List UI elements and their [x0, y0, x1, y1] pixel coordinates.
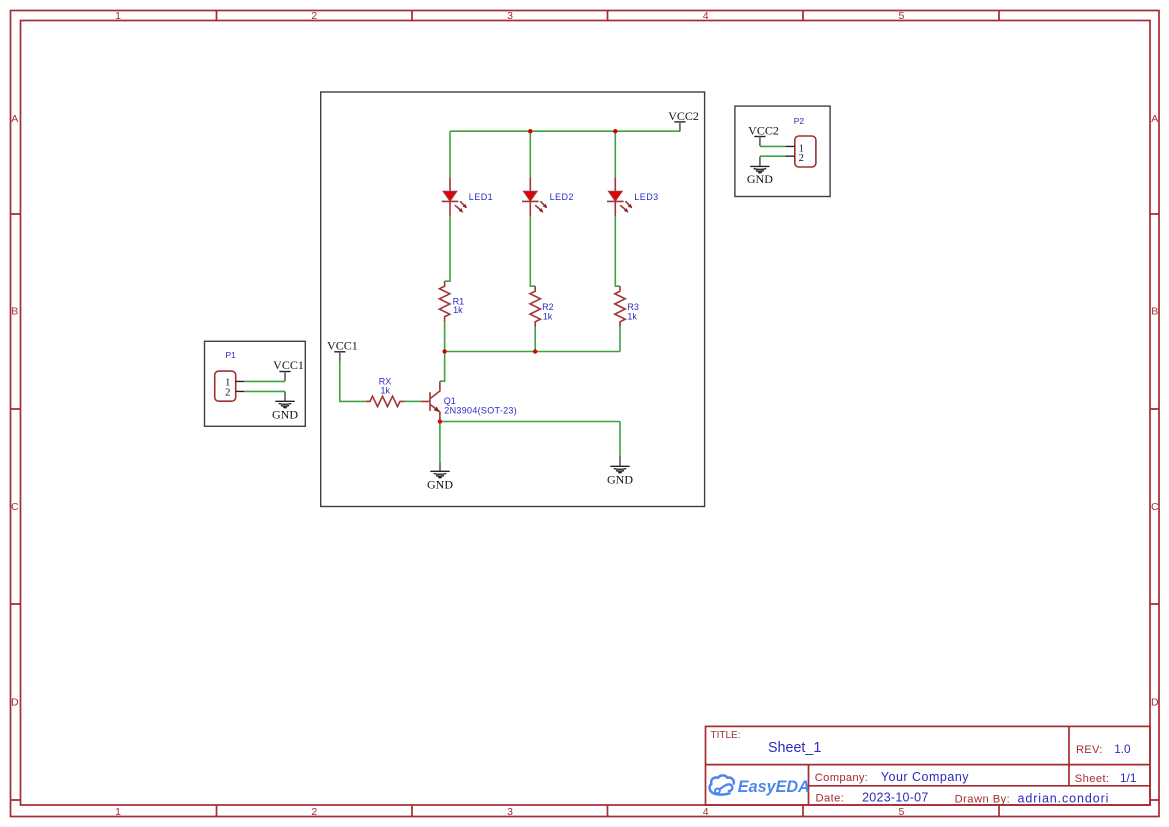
LED LED1: [442, 177, 467, 216]
svg-text:D: D: [11, 697, 19, 709]
svg-text:TITLE:: TITLE:: [711, 730, 741, 741]
svg-text:LED2: LED2: [550, 192, 574, 202]
svg-text:1/1: 1/1: [1120, 771, 1136, 785]
svg-text:1k: 1k: [627, 311, 637, 321]
wire LED3 top: [614, 131, 616, 177]
svg-text:adrian.condori: adrian.condori: [1018, 791, 1110, 805]
svg-text:REV:: REV:: [1076, 744, 1103, 756]
power flag VCC2 (top rail): [668, 109, 699, 132]
wire emitter bus: [445, 351, 620, 353]
svg-text:1: 1: [115, 806, 121, 818]
svg-text:B: B: [11, 306, 18, 318]
wire R3 bottom: [619, 327, 621, 352]
wire P1 pin2 to GND: [244, 390, 285, 392]
connector P1 outline box: [205, 341, 306, 426]
wire LED2 to R2: [530, 216, 535, 286]
ground GND1 (under Q1): [427, 462, 453, 492]
svg-text:2N3904(SOT-23): 2N3904(SOT-23): [444, 405, 517, 415]
main circuit outline box: [321, 92, 705, 507]
resistor R3: [615, 286, 625, 326]
svg-text:1.0: 1.0: [1114, 742, 1131, 756]
power flag VCC2 (P2): [748, 123, 779, 146]
node junction emitter: [438, 419, 442, 423]
svg-text:Sheet:: Sheet:: [1075, 773, 1110, 785]
wire VCC1 to RX: [340, 361, 366, 401]
node junction bus-R2: [533, 349, 537, 353]
svg-text:2: 2: [311, 10, 317, 22]
resistor R2: [530, 286, 540, 326]
wire emitter to GND1: [439, 422, 441, 462]
node junction rail-LED2: [528, 129, 532, 133]
wire collector drop: [440, 352, 445, 382]
svg-text:A: A: [1151, 113, 1158, 125]
node junction rail-LED3: [613, 129, 617, 133]
svg-text:2: 2: [225, 387, 230, 398]
wire P2 pin1 to VCC2: [760, 145, 785, 147]
svg-text:A: A: [11, 113, 18, 125]
svg-text:R3: R3: [627, 302, 639, 312]
svg-text:1k: 1k: [453, 305, 463, 315]
wire VCC2 top rail: [450, 130, 680, 132]
ground GND2 (right): [607, 457, 633, 487]
svg-text:GND: GND: [607, 472, 633, 486]
wire LED3 to R3: [615, 216, 620, 286]
svg-text:GND: GND: [427, 477, 453, 491]
svg-text:GND: GND: [747, 172, 773, 186]
resistor R1: [439, 281, 449, 322]
wire LED1 to R1: [445, 216, 450, 281]
svg-text:P1: P1: [226, 350, 237, 360]
svg-text:Your Company: Your Company: [881, 770, 969, 784]
svg-text:B: B: [1151, 306, 1158, 318]
power flag VCC1 (P1): [273, 358, 304, 381]
LED LED2: [522, 177, 547, 216]
svg-text:VCC1: VCC1: [327, 338, 358, 352]
svg-text:Company:: Company:: [815, 772, 868, 784]
svg-text:2: 2: [799, 153, 804, 164]
svg-text:R2: R2: [542, 302, 554, 312]
svg-text:LED1: LED1: [469, 192, 493, 202]
svg-text:5: 5: [898, 806, 904, 818]
wire emitter to GND rail: [440, 422, 620, 457]
wire RX to Q1 base: [405, 400, 421, 402]
svg-text:4: 4: [703, 10, 709, 22]
wire P2 pin2 to GND: [760, 155, 785, 157]
svg-text:LED3: LED3: [634, 192, 658, 202]
EasyEDA logo: [710, 775, 734, 794]
svg-text:1k: 1k: [381, 385, 391, 395]
svg-text:C: C: [1151, 501, 1159, 513]
svg-text:1k: 1k: [543, 311, 553, 321]
svg-text:3: 3: [507, 806, 513, 818]
power flag VCC1 (main): [327, 338, 358, 361]
svg-text:5: 5: [898, 10, 904, 22]
svg-text:VCC2: VCC2: [668, 109, 699, 123]
svg-text:VCC1: VCC1: [273, 358, 304, 372]
wire P1 pin1 to VCC1: [244, 380, 285, 382]
wire LED2 top: [529, 131, 531, 177]
node junction bus-R1: [442, 349, 446, 353]
svg-text:2: 2: [311, 806, 317, 818]
svg-text:GND: GND: [272, 408, 298, 422]
title block: [706, 726, 1151, 805]
connector P1: [215, 371, 245, 401]
svg-text:Date:: Date:: [816, 793, 845, 805]
LED LED3: [607, 177, 632, 216]
svg-text:C: C: [11, 501, 19, 513]
svg-text:1: 1: [115, 10, 121, 22]
connector P2 outline box: [735, 106, 830, 196]
transistor Q1: [420, 381, 440, 421]
svg-text:3: 3: [507, 10, 513, 22]
svg-text:P2: P2: [794, 116, 805, 126]
ground GND (P2): [747, 157, 773, 187]
svg-text:2023-10-07: 2023-10-07: [862, 791, 928, 805]
svg-text:4: 4: [703, 806, 709, 818]
svg-text:D: D: [1151, 697, 1159, 709]
svg-text:Sheet_1: Sheet_1: [768, 740, 821, 756]
wire R1 bottom: [444, 322, 446, 352]
svg-text:VCC2: VCC2: [748, 123, 779, 137]
wire R2 bottom: [534, 327, 536, 352]
wire LED1 top: [449, 131, 451, 177]
ground GND (P1): [272, 392, 298, 422]
connector P2: [785, 136, 816, 167]
resistor RX: [366, 396, 405, 406]
svg-text:Drawn By:: Drawn By:: [955, 793, 1011, 805]
svg-text:EasyEDA: EasyEDA: [738, 778, 810, 796]
